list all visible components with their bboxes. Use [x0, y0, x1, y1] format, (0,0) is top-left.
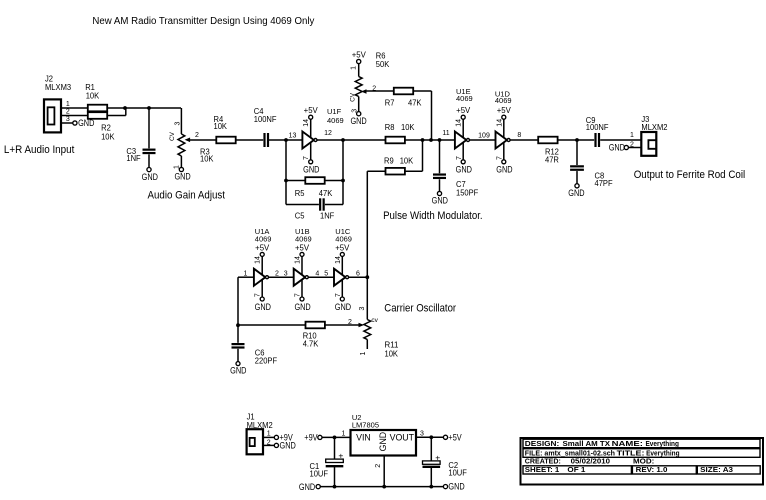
svg-text:DESIGN:: DESIGN:	[525, 439, 560, 448]
svg-text:7: 7	[303, 156, 310, 160]
svg-text:3: 3	[359, 306, 366, 310]
svg-text:2: 2	[372, 86, 376, 93]
svg-text:109: 109	[478, 132, 490, 139]
svg-text:+5V: +5V	[448, 432, 462, 442]
svg-text:10K: 10K	[200, 153, 214, 163]
svg-text:14: 14	[295, 256, 302, 264]
svg-text:1: 1	[630, 132, 634, 139]
svg-text:+5V: +5V	[335, 243, 350, 252]
svg-text:1NF: 1NF	[126, 153, 140, 163]
svg-text:13: 13	[289, 132, 297, 139]
svg-text:2: 2	[348, 319, 352, 326]
svg-text:GND: GND	[456, 165, 473, 175]
svg-text:GND: GND	[496, 165, 513, 175]
svg-text:REV: 1.0: REV: 1.0	[636, 465, 668, 474]
svg-text:R8: R8	[385, 122, 395, 132]
svg-text:3: 3	[420, 430, 424, 437]
svg-text:1: 1	[341, 431, 345, 438]
svg-text:100NF: 100NF	[254, 114, 277, 124]
svg-text:1: 1	[243, 271, 247, 278]
svg-text:GND: GND	[230, 366, 247, 376]
svg-text:1: 1	[350, 66, 357, 70]
svg-text:8: 8	[517, 132, 521, 139]
svg-text:7: 7	[255, 293, 262, 297]
svg-text:+5V: +5V	[255, 243, 270, 252]
svg-text:GND: GND	[609, 143, 626, 153]
svg-text:47PF: 47PF	[595, 178, 613, 188]
svg-text:GND: GND	[174, 172, 191, 182]
svg-text:+5V: +5V	[497, 106, 512, 115]
svg-text:OF 1: OF 1	[567, 465, 585, 474]
svg-text:+: +	[435, 452, 440, 462]
svg-text:1NF: 1NF	[320, 210, 334, 220]
svg-text:LM7805: LM7805	[352, 420, 379, 429]
svg-text:47K: 47K	[319, 188, 333, 198]
svg-text:10UF: 10UF	[448, 468, 467, 478]
svg-text:GND: GND	[294, 302, 311, 312]
svg-text:2: 2	[630, 141, 634, 148]
svg-text:2: 2	[267, 440, 271, 447]
svg-text:GND: GND	[142, 172, 159, 182]
svg-text:2: 2	[275, 271, 279, 278]
svg-text:11: 11	[442, 130, 449, 137]
svg-text:7: 7	[456, 156, 463, 160]
svg-text:14: 14	[456, 119, 463, 127]
svg-text:CV: CV	[169, 131, 176, 141]
svg-text:+5V: +5V	[352, 51, 367, 60]
svg-text:GND: GND	[255, 302, 272, 312]
svg-text:New AM Radio Transmitter Desig: New AM Radio Transmitter Design Using 40…	[92, 16, 314, 27]
svg-text:+5V: +5V	[456, 106, 471, 115]
svg-text:SHEET: 1: SHEET: 1	[525, 465, 560, 474]
svg-text:3: 3	[352, 109, 359, 113]
svg-text:10K: 10K	[401, 122, 415, 132]
svg-text:4069: 4069	[456, 94, 473, 103]
svg-text:7: 7	[295, 293, 302, 297]
svg-text:3: 3	[66, 116, 70, 123]
svg-text:47R: 47R	[545, 155, 559, 165]
svg-text:4069: 4069	[255, 234, 272, 243]
svg-text:Small AM TX: Small AM TX	[563, 439, 611, 448]
svg-text:cv: cv	[371, 317, 378, 324]
svg-text:Carrier Oscillator: Carrier Oscillator	[384, 302, 456, 314]
svg-text:R9: R9	[384, 155, 394, 165]
svg-text:1: 1	[267, 431, 271, 438]
svg-text:VOUT: VOUT	[390, 432, 415, 442]
svg-text:+5V: +5V	[304, 106, 319, 115]
svg-text:1: 1	[360, 351, 367, 355]
svg-text:14: 14	[303, 119, 310, 127]
svg-text:10K: 10K	[214, 121, 228, 131]
svg-text:4069: 4069	[327, 116, 344, 125]
svg-text:4069: 4069	[295, 234, 312, 243]
svg-text:10K: 10K	[86, 90, 100, 100]
svg-text:R7: R7	[385, 98, 395, 108]
svg-text:Output to Ferrite Rod Coil: Output to Ferrite Rod Coil	[634, 169, 746, 181]
svg-text:5: 5	[324, 271, 328, 278]
svg-text:7: 7	[335, 293, 342, 297]
svg-text:+9V: +9V	[304, 433, 318, 443]
svg-text:GND: GND	[299, 482, 316, 492]
svg-text:220PF: 220PF	[255, 355, 277, 365]
svg-text:GND: GND	[350, 116, 367, 126]
svg-text:2: 2	[66, 108, 70, 115]
svg-text:10UF: 10UF	[310, 468, 329, 478]
svg-text:100NF: 100NF	[586, 122, 609, 132]
svg-text:VIN: VIN	[356, 432, 371, 442]
svg-text:3: 3	[284, 271, 288, 278]
svg-text:7: 7	[496, 156, 503, 160]
svg-text:U1F: U1F	[327, 107, 342, 116]
svg-text:+5V: +5V	[295, 243, 310, 252]
svg-text:10K: 10K	[101, 131, 115, 141]
svg-text:1: 1	[66, 101, 70, 108]
svg-text:CV: CV	[350, 92, 357, 102]
svg-text:6: 6	[356, 271, 360, 278]
svg-text:4069: 4069	[335, 234, 352, 243]
svg-text:10K: 10K	[385, 349, 399, 359]
svg-text:12: 12	[324, 130, 332, 137]
svg-text:GND: GND	[303, 165, 320, 175]
svg-text:GND: GND	[280, 441, 297, 451]
svg-text:MLXM3: MLXM3	[45, 82, 71, 92]
svg-text:4: 4	[315, 271, 319, 278]
svg-text:150PF: 150PF	[456, 188, 478, 198]
svg-text:Audio Gain Adjust: Audio Gain Adjust	[148, 189, 226, 201]
svg-text:+: +	[338, 451, 343, 461]
svg-text:14: 14	[496, 119, 503, 127]
svg-text:50K: 50K	[376, 59, 390, 69]
svg-text:GND: GND	[378, 432, 388, 452]
svg-text:Pulse Width Modulator.: Pulse Width Modulator.	[383, 210, 483, 222]
svg-text:14: 14	[255, 256, 262, 264]
svg-text:C5: C5	[295, 210, 305, 220]
svg-text:Everything: Everything	[646, 439, 680, 448]
svg-text:SIZE: A3: SIZE: A3	[700, 465, 733, 474]
svg-text:47K: 47K	[408, 98, 422, 108]
svg-text:MLXM2: MLXM2	[247, 420, 273, 430]
svg-text:GND: GND	[568, 188, 585, 198]
svg-text:3: 3	[174, 121, 181, 125]
svg-text:10K: 10K	[400, 155, 414, 165]
svg-text:MLXM2: MLXM2	[641, 122, 667, 132]
svg-text:14: 14	[335, 256, 342, 264]
svg-text:4.7K: 4.7K	[303, 338, 319, 348]
svg-text:GND: GND	[432, 196, 449, 206]
svg-text:2: 2	[375, 464, 382, 468]
svg-text:GND: GND	[448, 482, 465, 492]
svg-text:R5: R5	[295, 188, 305, 198]
svg-text:NAME:: NAME:	[612, 439, 643, 448]
svg-text:L+R Audio Input: L+R Audio Input	[4, 144, 75, 156]
svg-text:1: 1	[174, 165, 181, 169]
svg-text:2: 2	[195, 132, 199, 139]
svg-text:GND: GND	[335, 302, 352, 312]
svg-text:4069: 4069	[495, 96, 512, 105]
